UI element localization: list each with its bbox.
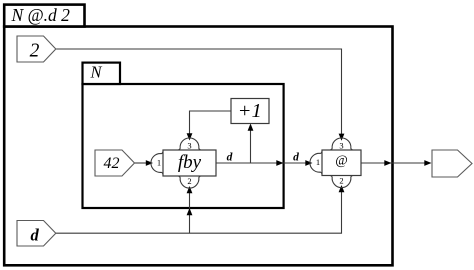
wire: +1 output down into fby port3 — [190, 111, 232, 139]
wire: branch from fby output up into +1 — [250, 125, 252, 163]
input pin d — [17, 221, 56, 247]
wire: const 42 to fby port1 — [135, 162, 150, 164]
svg-text:d: d — [227, 151, 233, 163]
svg-text:42: 42 — [104, 155, 120, 172]
input pin 2 — [17, 36, 56, 62]
fby port3 bump — [178, 138, 201, 150]
arrowhead into @ port1 — [305, 160, 312, 166]
svg-text:@: @ — [335, 152, 347, 167]
svg-text:2: 2 — [339, 176, 343, 186]
wire: d branch up into fby port2 — [189, 187, 191, 233]
wire: @ output to node output, crossing outer box edge — [361, 162, 431, 164]
op box +1 — [231, 99, 269, 124]
svg-text:1: 1 — [316, 157, 320, 167]
svg-text:d: d — [30, 225, 39, 244]
svg-text:2: 2 — [187, 176, 191, 186]
svg-text:fby: fby — [178, 152, 202, 173]
svg-text:1: 1 — [157, 157, 161, 167]
svg-text:2: 2 — [30, 40, 40, 61]
node N inner box — [83, 84, 284, 208]
node N@.d2 outer box — [4, 27, 392, 266]
arrowhead into fby port3 — [187, 133, 193, 140]
@ port2 bump — [330, 176, 353, 188]
fby port1 bump — [151, 152, 163, 175]
wire: input d to @ port2 — [56, 187, 342, 233]
@ port3 bump — [330, 138, 353, 150]
svg-text:3: 3 — [187, 140, 191, 150]
arrowhead into @ port2 — [339, 185, 345, 192]
arrowhead into fby port2 — [187, 186, 193, 193]
arrowhead into @ port3 — [339, 134, 345, 141]
output pin — [432, 150, 472, 177]
arrowhead at N box right edge — [276, 160, 283, 166]
svg-text:+1: +1 — [238, 100, 262, 122]
operator @ body — [322, 150, 361, 176]
wire: const 2 to @ port3 — [56, 49, 342, 139]
arrowhead at outer box right edge — [384, 160, 391, 166]
node N title tab — [83, 63, 121, 84]
svg-text:3: 3 — [339, 140, 343, 150]
fby port2 bump — [178, 176, 201, 188]
wire: fby output to @ port1, crossing N box edge — [216, 162, 311, 164]
node N@.d2 title tab — [4, 5, 84, 27]
arrowhead at N box bottom edge — [187, 208, 193, 215]
arrowhead into fby port1 — [146, 160, 153, 166]
arrowhead into +1 bottom — [248, 124, 254, 131]
svg-text:N @.d 2: N @.d 2 — [11, 5, 71, 25]
operator fby body — [163, 150, 216, 176]
@ port1 bump — [310, 151, 322, 174]
arrowhead into output pin — [424, 160, 431, 166]
svg-text:N: N — [90, 62, 103, 81]
const pin 42 — [95, 150, 135, 176]
svg-text:d: d — [293, 151, 299, 163]
